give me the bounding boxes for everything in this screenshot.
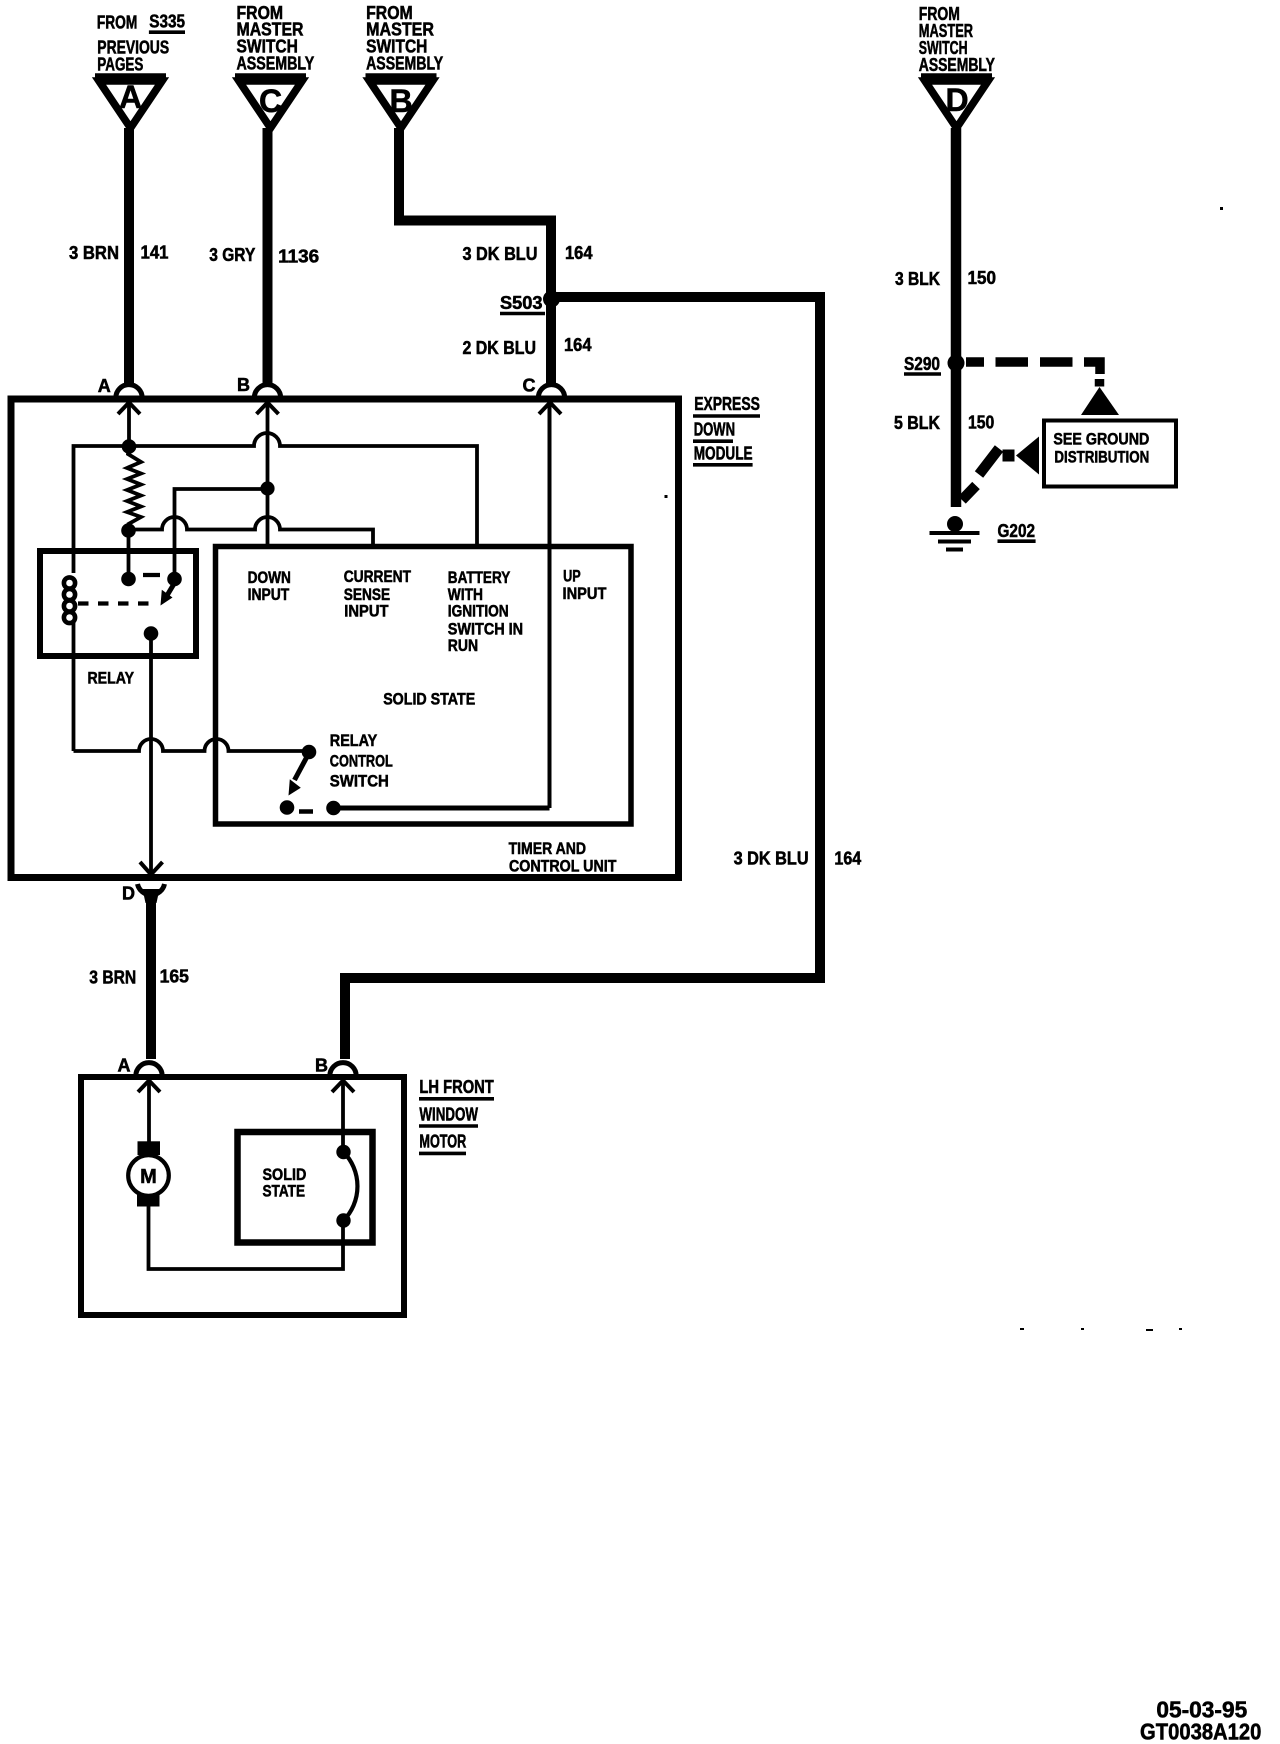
svg-text:3 BRN: 3 BRN	[89, 968, 136, 988]
svg-text:D: D	[945, 82, 968, 118]
svg-text:S503: S503	[500, 293, 543, 313]
svg-text:164: 164	[565, 243, 593, 263]
svg-text:RELAY: RELAY	[330, 731, 378, 750]
svg-text:GT0038A120: GT0038A120	[1140, 1719, 1261, 1744]
svg-text:EXPRESS: EXPRESS	[694, 394, 760, 414]
svg-text:CURRENT: CURRENT	[344, 567, 412, 586]
svg-text:2 DK BLU: 2 DK BLU	[463, 338, 537, 358]
svg-text:C: C	[259, 83, 282, 119]
svg-text:IGNITION: IGNITION	[448, 602, 509, 621]
svg-text:B: B	[389, 83, 412, 119]
svg-text:ASSEMBLY: ASSEMBLY	[366, 54, 443, 74]
svg-text:SOLID STATE: SOLID STATE	[383, 690, 475, 709]
svg-text:A: A	[119, 79, 142, 115]
svg-text:FROM: FROM	[97, 13, 137, 33]
svg-text:A: A	[98, 376, 111, 396]
svg-text:M: M	[140, 1166, 157, 1188]
svg-text:WINDOW: WINDOW	[419, 1104, 478, 1124]
svg-text:SWITCH: SWITCH	[330, 772, 389, 791]
svg-text:ASSEMBLY: ASSEMBLY	[919, 55, 995, 75]
svg-text:A: A	[118, 1055, 131, 1075]
svg-text:SEE GROUND: SEE GROUND	[1053, 429, 1149, 448]
svg-text:TIMER AND: TIMER AND	[509, 839, 586, 858]
svg-text:LH FRONT: LH FRONT	[419, 1077, 493, 1097]
svg-text:D: D	[122, 883, 135, 903]
svg-text:MOTOR: MOTOR	[419, 1132, 466, 1152]
svg-text:RELAY: RELAY	[88, 668, 135, 687]
svg-text:164: 164	[564, 335, 592, 355]
svg-text:141: 141	[141, 243, 169, 263]
svg-text:5 BLK: 5 BLK	[894, 413, 940, 433]
svg-text:S290: S290	[904, 354, 940, 374]
svg-text:RUN: RUN	[448, 636, 478, 655]
svg-text:3 BRN: 3 BRN	[69, 243, 119, 263]
svg-text:1136: 1136	[278, 247, 319, 267]
svg-text:DOWN: DOWN	[694, 420, 735, 440]
svg-text:G202: G202	[998, 521, 1036, 541]
svg-text:MODULE: MODULE	[694, 444, 753, 464]
svg-text:150: 150	[968, 413, 994, 433]
svg-text:STATE: STATE	[263, 1181, 306, 1200]
svg-text:150: 150	[968, 268, 997, 288]
svg-text:B: B	[315, 1055, 328, 1075]
svg-text:165: 165	[160, 966, 189, 986]
svg-text:INPUT: INPUT	[563, 584, 607, 603]
svg-text:B: B	[237, 375, 250, 395]
svg-text:3 DK BLU: 3 DK BLU	[463, 244, 538, 264]
svg-text:INPUT: INPUT	[248, 585, 290, 604]
svg-text:UP: UP	[563, 566, 581, 585]
svg-text:PAGES: PAGES	[97, 55, 143, 75]
svg-text:S335: S335	[149, 12, 185, 32]
svg-text:C: C	[523, 375, 536, 395]
svg-text:3 GRY: 3 GRY	[209, 245, 255, 265]
svg-text:3 DK BLU: 3 DK BLU	[734, 849, 809, 869]
svg-text:DISTRIBUTION: DISTRIBUTION	[1054, 447, 1149, 466]
svg-text:ASSEMBLY: ASSEMBLY	[237, 54, 315, 74]
svg-text:CONTROL: CONTROL	[330, 752, 393, 771]
svg-text:INPUT: INPUT	[344, 602, 389, 621]
svg-text:164: 164	[834, 849, 861, 869]
svg-text:CONTROL UNIT: CONTROL UNIT	[509, 857, 617, 876]
svg-text:3 BLK: 3 BLK	[895, 269, 940, 289]
